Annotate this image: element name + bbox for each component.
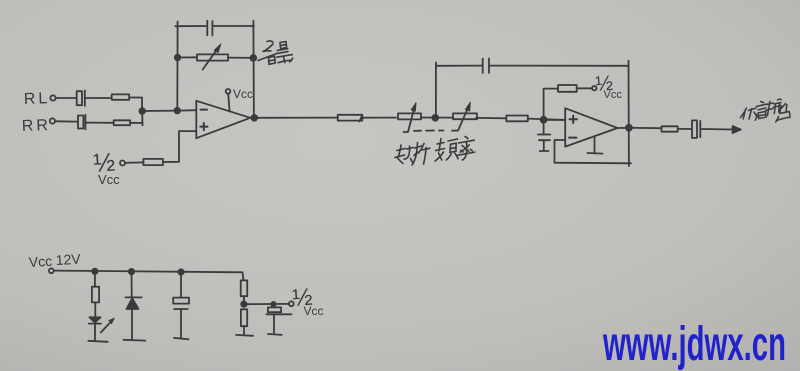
wire (476, 117, 506, 119)
terminal half-vcc-out (289, 301, 294, 306)
resistor R4 (338, 115, 363, 122)
resistor R9 (241, 280, 248, 296)
wire (180, 309, 182, 337)
svg-text:12V: 12V (55, 251, 81, 268)
svg-text:www.jdwx.cn: www.jdwx.cn (602, 316, 786, 370)
capacitor C6 (692, 120, 700, 137)
wire (678, 128, 692, 130)
capacitor C8 (267, 304, 292, 333)
wire (629, 127, 662, 129)
wire plus input (544, 119, 566, 121)
capacitor C1 (77, 90, 112, 106)
svg-text:RR: RR (22, 117, 52, 135)
node junction (175, 55, 181, 61)
wire with arrow (702, 126, 741, 133)
svg-text:Vcc: Vcc (98, 172, 120, 187)
node junction (250, 55, 256, 61)
wire output (618, 127, 629, 129)
wire (56, 97, 76, 99)
terminal half-vcc-2 (592, 86, 596, 90)
capacitor C3 (207, 21, 212, 36)
node G junction (241, 302, 246, 307)
diode D2 (125, 297, 141, 309)
wire (131, 309, 133, 340)
LED D1 (89, 317, 114, 332)
resistor R8 (92, 287, 99, 303)
wire (528, 119, 565, 120)
wire (544, 89, 558, 120)
op-amp U1 (196, 101, 250, 138)
node C output junction (251, 115, 257, 121)
node F junction (626, 125, 632, 131)
ground op-amp2 (588, 138, 603, 154)
potentiometer RP1 (197, 44, 228, 70)
resistor R6 (558, 85, 577, 92)
label volume (Chinese) (258, 41, 293, 64)
wire (131, 272, 133, 298)
ground (124, 339, 146, 342)
svg-text:Vcc: Vcc (304, 304, 324, 318)
resistor R10 (241, 309, 247, 326)
node D junction (432, 115, 438, 121)
wire power rail (54, 271, 243, 273)
wire (180, 272, 182, 298)
wire (163, 131, 196, 162)
node E junction (541, 117, 547, 123)
wire (244, 303, 289, 305)
wire (125, 161, 143, 163)
wire left vertical (435, 66, 437, 118)
Vcc pin op-amp1 (226, 89, 231, 111)
label corner frequency (Chinese) (395, 137, 475, 166)
wire (55, 120, 77, 122)
wire minus feedback loop (555, 140, 632, 163)
resistor R5 (506, 116, 528, 122)
label 1/2 Vcc (92, 147, 120, 187)
wire (142, 110, 177, 112)
op-amp U2 (565, 108, 617, 146)
wire (243, 326, 245, 334)
wire (141, 111, 143, 123)
svg-text:Vcc: Vcc (28, 253, 52, 270)
potentiometer RP2 (398, 103, 421, 132)
wire top rail (175, 21, 253, 28)
svg-text:Vcc: Vcc (233, 87, 253, 101)
node A junction (139, 108, 145, 114)
svg-text:Vcc: Vcc (604, 89, 623, 101)
wire right vertical (628, 61, 630, 166)
node junction (129, 269, 134, 274)
wire (243, 272, 244, 280)
node B junction (175, 108, 181, 114)
wire (94, 324, 96, 341)
wire (130, 123, 142, 126)
wire (228, 57, 253, 59)
terminal half-vcc-1 (120, 161, 125, 166)
terminal RL (50, 95, 55, 100)
wire right vertical (252, 26, 255, 118)
label Vcc 12V (28, 251, 81, 270)
wire (178, 56, 197, 58)
svg-text:RL: RL (24, 90, 51, 108)
ground (174, 338, 189, 339)
ground (268, 333, 282, 336)
resistor R7 (662, 126, 678, 131)
capacitor C2 (78, 115, 114, 130)
resistor R3 (143, 159, 163, 165)
node junction (178, 269, 183, 274)
resistor R1 (112, 94, 130, 99)
ground (88, 341, 107, 342)
potentiometer RP3 (452, 102, 477, 130)
wire (254, 117, 337, 119)
wire (362, 117, 396, 119)
capacitor C4 (483, 58, 489, 73)
wire (177, 109, 196, 111)
node junction (92, 269, 97, 274)
wire (94, 271, 96, 286)
ground (236, 334, 253, 337)
node H junction (271, 302, 275, 306)
wire left vertical (176, 26, 178, 111)
terminal Vcc (49, 268, 54, 273)
ground (540, 150, 549, 152)
label 1/2 Vcc (292, 284, 324, 318)
label 1/2 Vcc (595, 72, 623, 101)
wire (577, 87, 592, 89)
wire top rail (436, 63, 629, 69)
capacitor C7 (173, 298, 189, 309)
label bass output (Chinese) (741, 99, 790, 122)
wire (243, 296, 245, 304)
wire (94, 302, 96, 317)
resistor R2 (114, 120, 130, 125)
wire (421, 117, 453, 119)
gang dashed link (414, 130, 444, 132)
capacitor C5 (538, 123, 551, 151)
terminal RR (50, 118, 55, 123)
wire (129, 98, 142, 112)
